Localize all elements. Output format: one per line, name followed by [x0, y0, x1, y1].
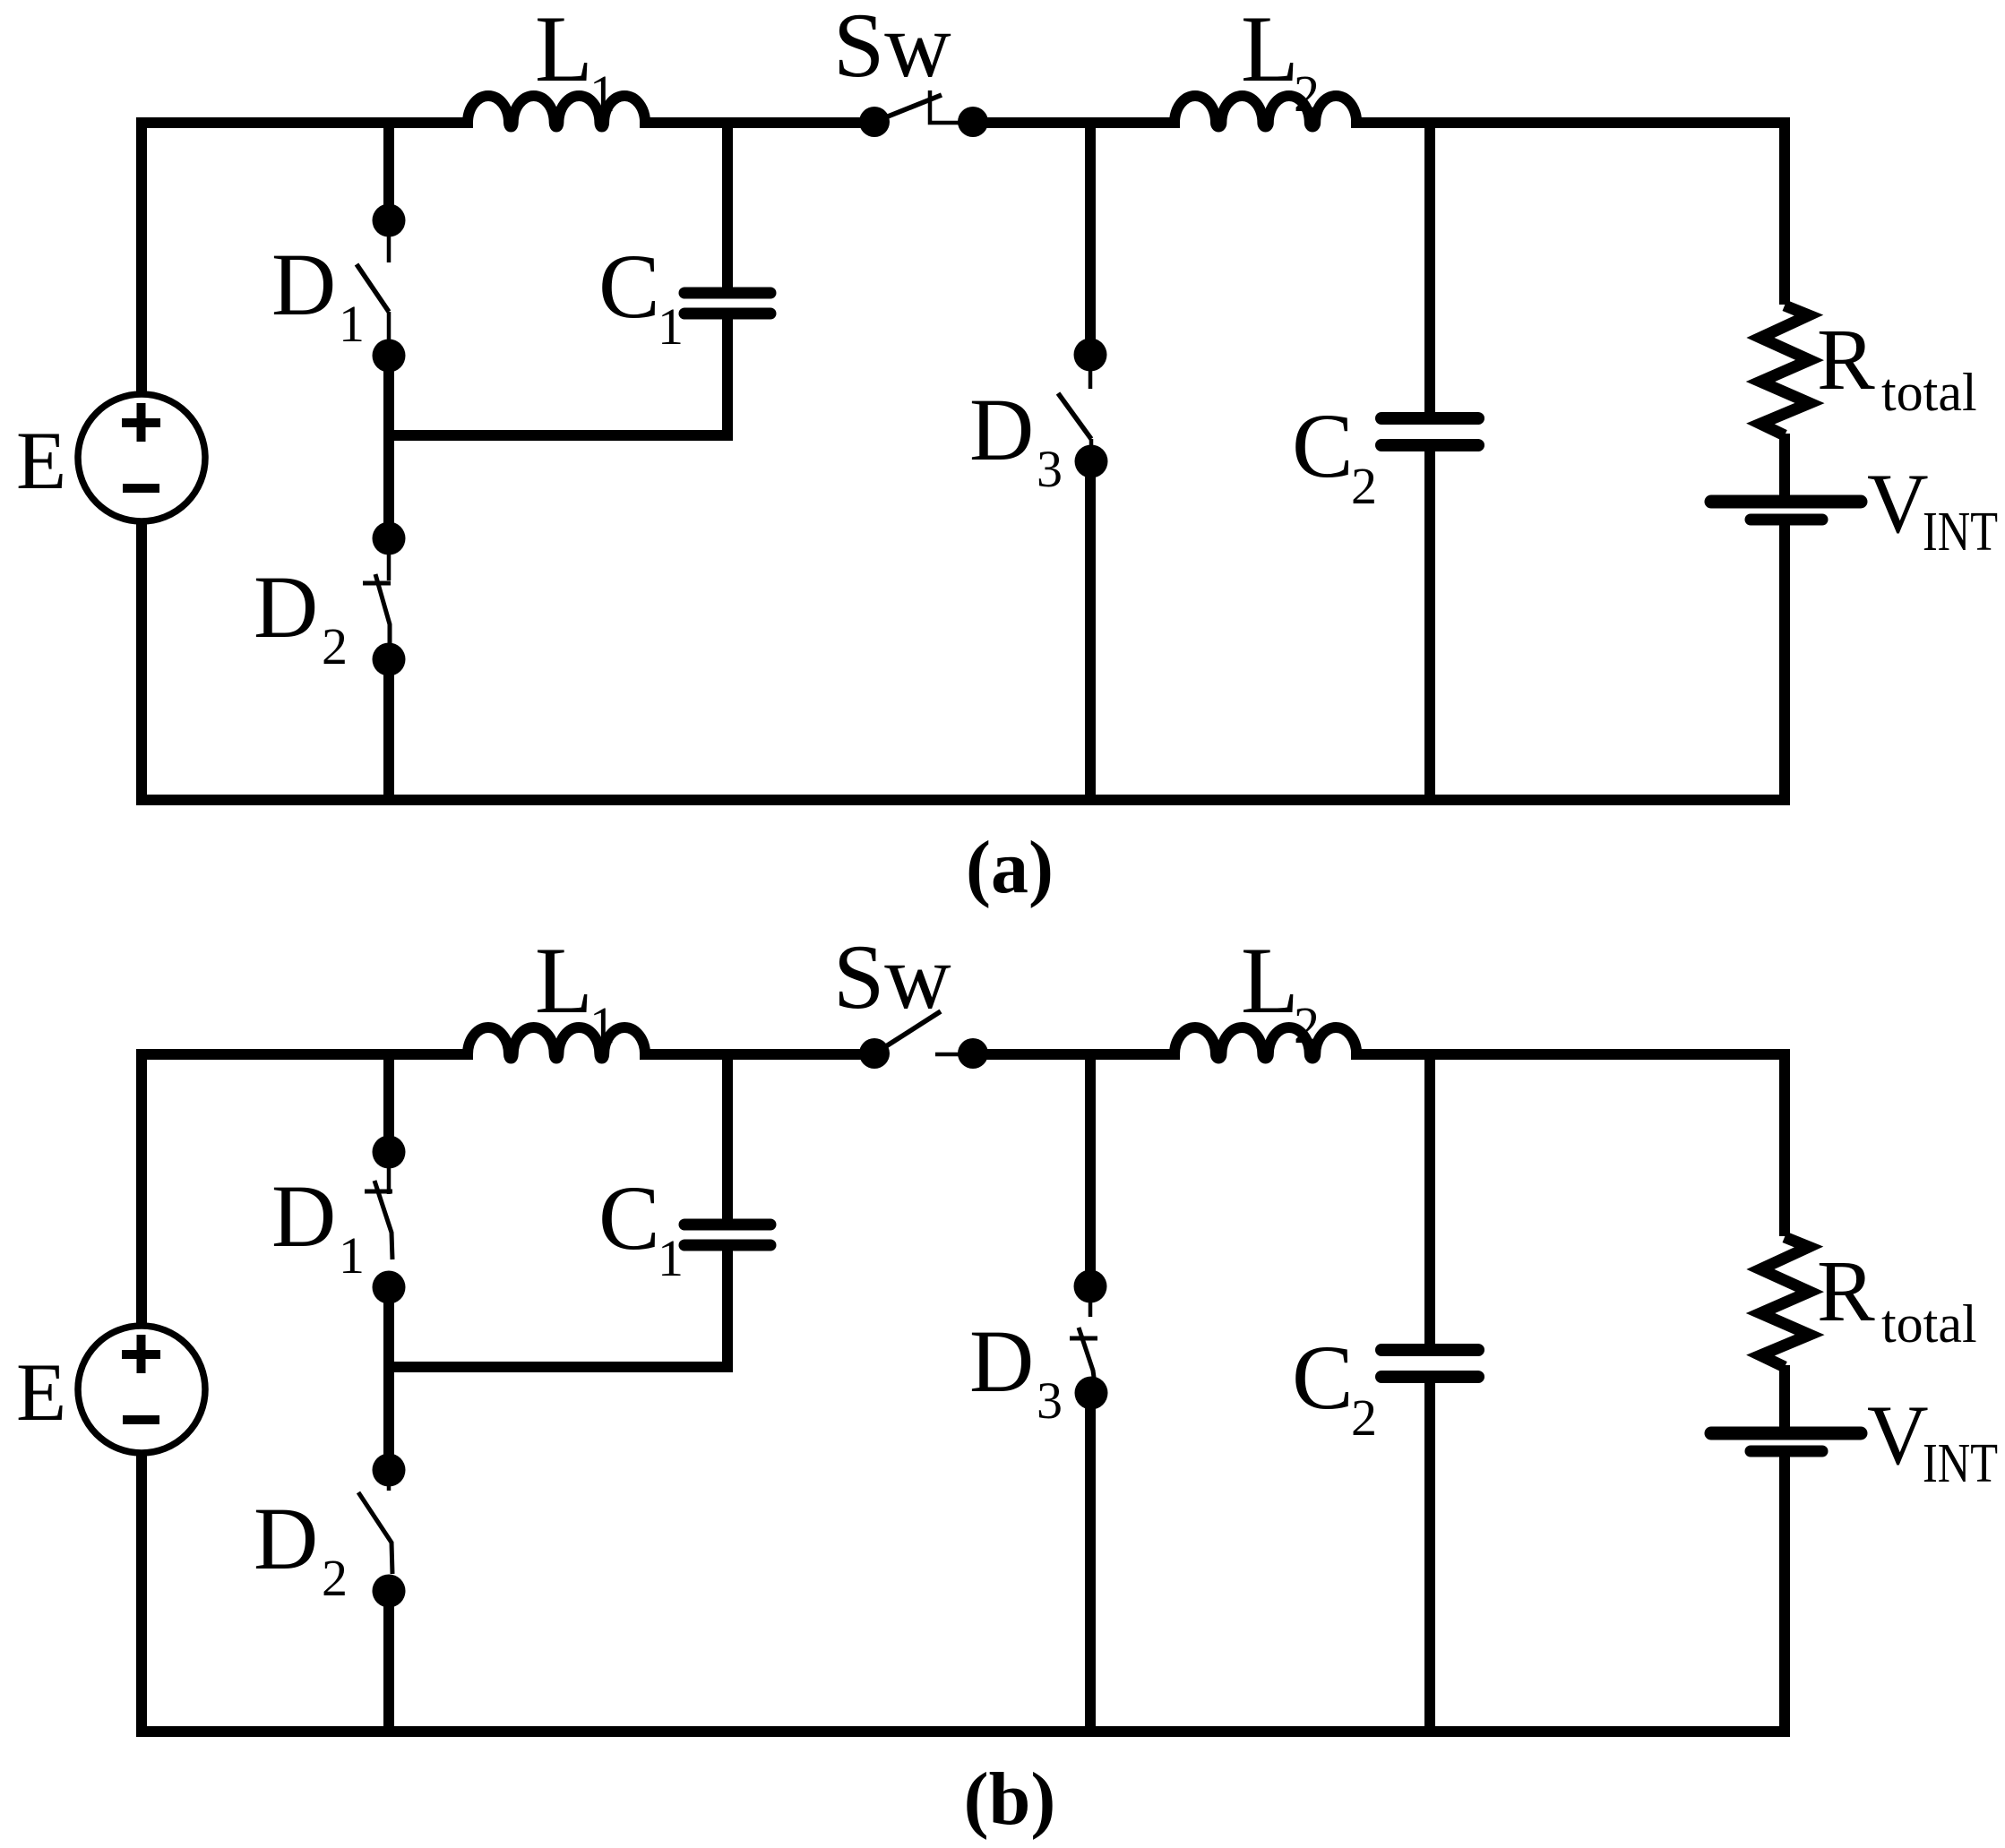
switch Sw right contact dot (a): [958, 107, 988, 137]
wire: top-right segment + right vertical to resistor (b): [1351, 1054, 1785, 1236]
battery V_INT long plate (a): [1711, 495, 1861, 509]
svg-text:2: 2: [1351, 1388, 1377, 1447]
wire: top rail down to C2 (b): [1424, 1054, 1435, 1345]
svg-text:total: total: [1881, 363, 1977, 422]
svg-text:3: 3: [1037, 440, 1063, 498]
diode-switch D2 top stub (b): [387, 1470, 392, 1491]
capacitor C2 bottom plate (b): [1381, 1371, 1478, 1383]
switch Sw left contact dot (b): [859, 1038, 890, 1069]
switch Sw lever (a): [874, 95, 942, 122]
svg-text:E: E: [16, 1346, 66, 1438]
wire: branch down to diode D1 (b): [383, 1054, 394, 1152]
svg-text:D: D: [254, 1489, 318, 1588]
wire: right vertical resistor to battery (a): [1779, 434, 1790, 496]
switch Sw contact stub (b): [935, 1053, 959, 1057]
svg-text:(b): (b): [964, 1758, 1056, 1841]
wire: top-right segment + right vertical to resistor (a): [1351, 123, 1785, 305]
svg-text:V: V: [1867, 456, 1929, 551]
diode-switch D3 top stub (a): [1089, 355, 1093, 389]
svg-text:1: 1: [339, 1226, 365, 1285]
inductor L1 coil (a): [468, 96, 645, 127]
svg-text:C: C: [598, 1167, 660, 1269]
diode-switch D2 lever (a): [375, 574, 390, 643]
inductor L1 coil (b): [468, 1027, 645, 1059]
wire: C2 to bottom rail (b): [1424, 1382, 1435, 1732]
switch Sw right contact dot (b): [958, 1038, 988, 1069]
wire: left vertical + top-left segment of circuit (b): [142, 1054, 473, 1326]
diode-switch D1 lever (a): [357, 264, 389, 312]
wire: D1 to D2 vertical (a): [383, 356, 394, 538]
svg-text:1: 1: [658, 297, 684, 356]
wire: top rail down to C2 (a): [1424, 123, 1435, 413]
wire: C2 to bottom rail (a): [1424, 451, 1435, 800]
wire: left vertical below source E (a): [136, 521, 147, 805]
diode-switch D2 bottom dot (a): [373, 643, 406, 676]
diode-switch D3 bottom stub (a): [1089, 439, 1094, 448]
diode-switch D3 top stub (b): [1089, 1286, 1093, 1317]
diode-switch D3 top dot (a): [1074, 339, 1107, 372]
svg-text:R: R: [1817, 1243, 1875, 1339]
wire: D3 to bottom rail (b): [1085, 1393, 1096, 1732]
diode-switch D3 lever (a): [1058, 393, 1091, 439]
diode-switch D1 contact tick (b): [365, 1190, 392, 1194]
svg-text:L: L: [1241, 928, 1299, 1033]
wire: D3 to bottom rail (a): [1085, 461, 1096, 800]
capacitor C2 top plate (a): [1381, 412, 1478, 425]
svg-text:Sw: Sw: [833, 0, 951, 97]
svg-text:D: D: [254, 557, 318, 657]
wire: bottom rail (a): [136, 795, 1790, 805]
svg-text:2: 2: [322, 617, 348, 675]
wire: top rail down to D3 (b): [1085, 1054, 1096, 1286]
wire: top segment switch to L2 (b): [969, 1049, 1180, 1060]
wire: top rail down to C1 (a): [722, 123, 733, 288]
diode-switch D2 bottom dot (b): [373, 1575, 406, 1608]
wire: bottom rail (b): [136, 1726, 1790, 1737]
diode-switch D3 contact tick (b): [1070, 1337, 1097, 1341]
wire: top rail down to D3 (a): [1085, 123, 1096, 355]
switch Sw lever (b): [876, 1011, 941, 1053]
inductor L2 coil (a): [1175, 96, 1356, 127]
wire: top rail down to C1 (b): [722, 1054, 733, 1219]
wire: right vertical battery to bottom (b): [1779, 1452, 1790, 1732]
svg-text:D: D: [969, 1311, 1034, 1411]
diode-switch D2 top stub (a): [387, 538, 392, 580]
capacitor C1 bottom plate (a): [684, 308, 770, 320]
wire: C1 down and across to D-branch (b): [389, 1251, 727, 1367]
svg-text:1: 1: [589, 996, 615, 1054]
voltage source minus sign (b): [123, 1415, 159, 1424]
svg-text:D: D: [271, 1166, 336, 1266]
diode-switch D1 top stub (b): [387, 1152, 392, 1194]
svg-text:INT: INT: [1923, 502, 1998, 563]
diode-switch D3 bottom dot (a): [1075, 445, 1108, 478]
svg-text:Sw: Sw: [833, 926, 951, 1028]
wire: top segment L1 to switch (a): [640, 117, 878, 128]
svg-text:L: L: [535, 0, 593, 101]
inductor L2 coil (b): [1175, 1027, 1356, 1059]
svg-text:E: E: [16, 415, 66, 506]
capacitor C1 top plate (a): [684, 288, 770, 299]
wire: top segment L1 to switch (b): [640, 1049, 878, 1060]
svg-text:total: total: [1881, 1294, 1977, 1354]
wire: D2 to bottom rail (b): [383, 1591, 394, 1732]
diode-switch D1 lever (b): [374, 1181, 392, 1259]
wire: left vertical below source E (b): [136, 1453, 147, 1737]
voltage source E circle (b): [78, 1326, 205, 1453]
svg-text:2: 2: [1294, 64, 1320, 123]
svg-text:L: L: [1241, 0, 1299, 101]
wire: left vertical + top-left segment of circuit (a): [142, 123, 473, 394]
switch Sw contact bracket (a): [930, 90, 959, 123]
svg-text:R: R: [1817, 312, 1875, 408]
switch Sw left contact dot (a): [859, 107, 890, 137]
capacitor C1 top plate (b): [684, 1219, 770, 1231]
voltage source E circle (a): [78, 394, 205, 521]
resistor R zigzag (a): [1760, 305, 1810, 435]
battery V_INT short plate (b): [1751, 1446, 1822, 1457]
wire: branch down to diode D1 (a): [383, 123, 394, 220]
voltage source plus sign (b): [122, 1335, 160, 1373]
diode-switch D1 bottom dot (b): [373, 1271, 406, 1304]
svg-text:1: 1: [589, 64, 615, 123]
svg-text:D: D: [969, 380, 1034, 479]
wire: right vertical resistor to battery (b): [1779, 1365, 1790, 1428]
diode-switch D1 top dot (b): [373, 1136, 406, 1169]
diode-switch D3 top dot (b): [1074, 1270, 1107, 1303]
voltage source minus sign (a): [123, 484, 159, 493]
svg-text:2: 2: [1294, 996, 1320, 1054]
wire: top segment switch to L2 (a): [969, 117, 1180, 128]
svg-text:3: 3: [1037, 1371, 1063, 1430]
diode-switch D1 top stub (a): [387, 220, 392, 262]
battery V_INT long plate (b): [1711, 1427, 1861, 1440]
diode-switch D3 bottom dot (b): [1075, 1377, 1108, 1410]
wire: C1 down and across to D-branch (a): [389, 319, 727, 435]
svg-text:(a): (a): [966, 826, 1054, 909]
svg-text:C: C: [1292, 395, 1354, 497]
svg-text:C: C: [1292, 1327, 1354, 1429]
diode-switch D2 top dot (a): [373, 522, 406, 555]
resistor R zigzag (b): [1760, 1237, 1810, 1367]
svg-text:C: C: [598, 236, 660, 338]
svg-text:2: 2: [322, 1549, 348, 1607]
wire: right vertical battery to bottom (a): [1779, 520, 1790, 800]
wire: D1 to D2 vertical (b): [383, 1287, 394, 1470]
wire: D2 to bottom rail (a): [383, 659, 394, 800]
voltage source plus sign (a): [122, 403, 160, 442]
svg-text:V: V: [1867, 1388, 1929, 1483]
svg-text:1: 1: [658, 1229, 684, 1287]
diode-switch D1 bottom stub (a): [387, 312, 392, 340]
svg-text:INT: INT: [1923, 1433, 1998, 1494]
capacitor C1 bottom plate (b): [684, 1240, 770, 1251]
svg-text:1: 1: [339, 295, 365, 353]
diode-switch D2 contact tick (a): [363, 581, 391, 586]
diode-switch D3 lever (b): [1079, 1328, 1095, 1384]
diode-switch D2 lever (b): [358, 1492, 392, 1574]
svg-text:L: L: [535, 928, 593, 1033]
capacitor C2 bottom plate (a): [1381, 439, 1478, 451]
diode-switch D1 bottom dot (a): [373, 340, 406, 373]
svg-text:2: 2: [1351, 457, 1377, 515]
diode-switch D1 top dot (a): [373, 204, 406, 237]
svg-text:D: D: [271, 235, 336, 334]
battery V_INT short plate (a): [1751, 514, 1822, 526]
diode-switch D2 top dot (b): [373, 1454, 406, 1487]
capacitor C2 top plate (b): [1381, 1344, 1478, 1356]
